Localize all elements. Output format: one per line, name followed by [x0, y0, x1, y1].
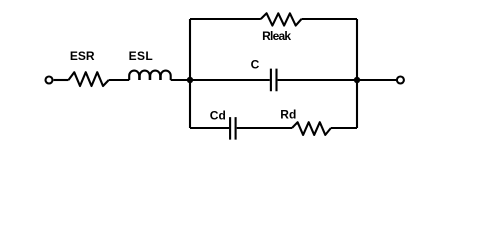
wire bottom rail right	[331, 127, 357, 129]
left terminal	[46, 77, 53, 84]
resistor Rleak	[261, 13, 302, 25]
capacitor C	[271, 69, 277, 92]
wire middle right	[278, 79, 357, 81]
resistor ESR	[69, 72, 109, 86]
wire left vertical	[189, 19, 191, 128]
wire	[357, 79, 396, 81]
wire	[54, 79, 69, 81]
wire top rail right	[302, 18, 358, 20]
resistor Rd	[292, 122, 331, 135]
wire middle left	[190, 79, 270, 81]
right terminal	[397, 77, 404, 84]
svg-text:C: C	[251, 57, 260, 71]
svg-text:ESR: ESR	[70, 49, 95, 63]
capacitor Cd	[230, 117, 236, 140]
wire	[109, 79, 129, 81]
svg-text:ESL: ESL	[129, 49, 154, 63]
wire top rail left	[190, 18, 261, 20]
wire right vertical	[356, 19, 358, 128]
wire	[171, 79, 190, 81]
svg-text:Rd: Rd	[280, 107, 296, 121]
inductor ESL	[129, 71, 171, 80]
svg-text:Cd: Cd	[210, 109, 226, 123]
wire bottom mid	[237, 127, 292, 129]
node junction right	[354, 77, 360, 83]
node junction left	[187, 77, 193, 83]
svg-text:Rleak: Rleak	[262, 29, 291, 43]
wire bottom rail left	[190, 127, 229, 129]
